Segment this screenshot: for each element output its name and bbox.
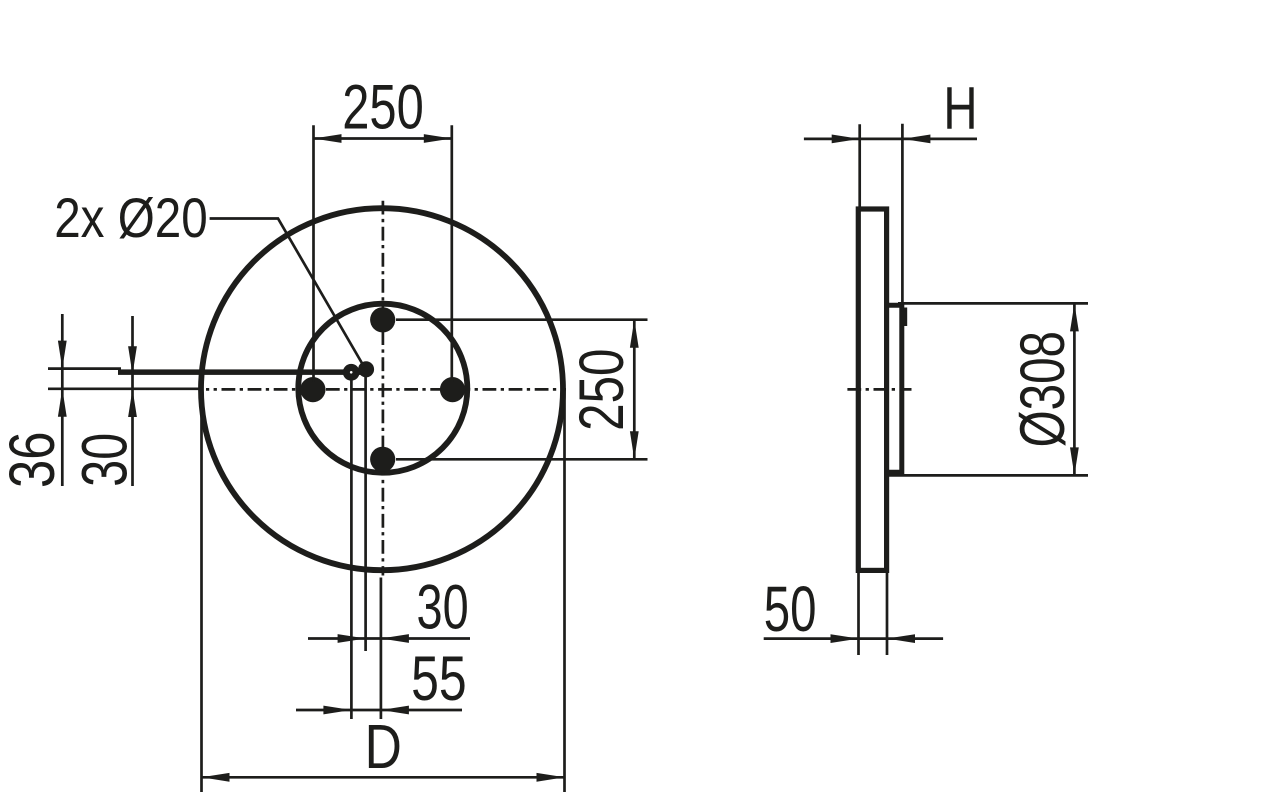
dim D dimension line [202,776,565,779]
vertical centerline front view [382,201,385,576]
dim 50 dimension line [764,637,943,640]
bolt hole bottom [370,447,395,472]
svg-text:250: 250 [567,349,637,431]
dim 30 bottom arrow right [381,634,409,643]
dim 250 top extension line left [312,125,315,382]
svg-text:30: 30 [417,572,469,642]
bolt hole left [300,377,325,402]
dim H extension line right [901,124,904,312]
extension line small hole1 down [350,376,353,719]
small hole 1 center speck [350,371,353,374]
dim 250 top extension line right [450,125,453,382]
dim 36 dimension line vertical [61,314,64,486]
svg-text:Ø308: Ø308 [1006,331,1077,447]
dim D arrow left [202,773,230,782]
dim O308 arrow top [1070,303,1079,331]
dim 250 right dimension line [633,320,636,460]
dim 250 right arrow bottom [630,431,639,459]
hub circle front view [298,304,467,473]
dim 36-30 extension line centerline [48,387,201,390]
svg-text:30: 30 [70,433,141,487]
dim H arrow right [902,135,930,144]
dim 50 arrow right [887,634,915,643]
dim 55 arrow right [381,706,409,715]
side view centerline [847,388,912,391]
dim O308 arrow bottom [1070,447,1079,475]
handle bar object [118,369,363,375]
dim 50 extension line right [886,573,889,655]
dim 30 arrow down [128,346,137,374]
dim 50 extension line left [857,573,860,655]
dim O308 extension line bottom [888,474,1088,477]
svg-text:250: 250 [342,72,424,142]
side view plate outline [858,209,886,570]
dim 36 arrow down [58,341,67,369]
dim 36 extension line top edge [48,367,121,370]
dim 55 arrow left [323,706,351,715]
extension line center down [380,578,383,720]
dim 30 dimension line vertical [131,316,134,486]
small hole 2 right [358,361,374,377]
dim 30 bottom dimension line [308,637,470,640]
bolt hole top [370,307,395,332]
dim H extension line left [858,124,861,207]
extension line small hole2 down [364,373,367,651]
bolt hole right [440,377,465,402]
dim 250 right arrow top [630,320,639,348]
side view hub outline [887,305,902,472]
dim 250 top dimension line [314,137,452,140]
dim 36 arrow up [58,389,67,417]
leader line 2x O20 horizontal [210,219,365,368]
dim 250 right extension line top [396,318,648,321]
dim 55 dimension line [296,709,462,712]
dim O308 extension line top [898,302,1088,305]
svg-text:55: 55 [411,643,467,714]
disc outer circle front view [201,208,563,570]
svg-text:50: 50 [764,573,817,645]
horizontal centerline front view [206,388,566,391]
dim D extension line right [563,391,566,792]
dim 30 bottom arrow left [338,634,366,643]
dim 30 arrow up [128,389,137,417]
svg-text:H: H [943,76,977,143]
dim O308 dimension line [1073,303,1076,475]
svg-text:D: D [365,713,402,783]
dim D arrow right [537,773,565,782]
dim 250 right extension line bottom [396,458,648,461]
dim 250 top arrow left [314,134,342,143]
small hole 1 left [343,364,360,381]
side view hub top-right step [904,308,908,327]
dim 250 top arrow right [424,134,452,143]
svg-text:2x Ø20: 2x Ø20 [54,187,207,249]
svg-text:36: 36 [0,432,69,488]
dim H dimension line [804,138,977,141]
dim 50 arrow left [831,634,859,643]
dim H arrow left [832,135,860,144]
dim D extension line left [200,391,203,792]
